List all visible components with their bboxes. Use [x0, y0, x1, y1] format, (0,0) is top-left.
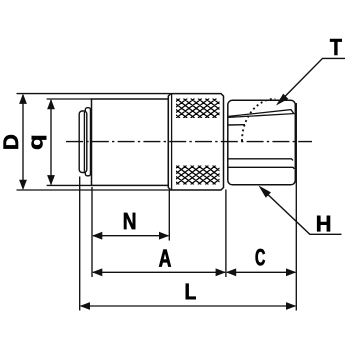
leader T arrowhead [276, 94, 288, 106]
plug tip outer ring [85, 108, 90, 176]
dimension L line [81, 305, 296, 307]
dimension d arrows [47, 99, 55, 109]
hex upper short flat line [228, 124, 245, 126]
body barrel [92, 99, 169, 185]
label D [4, 135, 18, 149]
leader H [261, 188, 342, 234]
label N [124, 213, 135, 229]
extension line right L/C [295, 103, 297, 311]
plug tip front ring [79, 111, 87, 173]
label L [186, 284, 196, 300]
thread dotted arc [242, 99, 275, 141]
dimension A line [93, 271, 225, 273]
hex lower flat line 2 [228, 167, 294, 169]
d bottom extension line [47, 184, 92, 186]
dimension N arrows [92, 232, 102, 240]
dimension N line [93, 235, 168, 237]
extension line A/C [225, 190, 227, 278]
dimension C line [227, 271, 295, 273]
extension line A/N left [91, 187, 93, 277]
label H [317, 216, 330, 232]
sleeve left face line [171, 94, 173, 190]
label T [330, 39, 342, 55]
dimension D line [22, 95, 24, 189]
label d [32, 136, 47, 149]
plug tip inner line [83, 112, 85, 172]
knurl band top [140, 99, 246, 119]
dimension d line [50, 100, 52, 184]
knurled sleeve [168, 94, 223, 190]
dimension L arrows [80, 302, 90, 310]
leader T [279, 58, 346, 103]
leader H arrowhead [259, 186, 272, 198]
extension line N right [168, 191, 170, 241]
centerline [66, 141, 312, 143]
hex upper wedge line [228, 110, 293, 118]
hex nut outline [228, 100, 295, 185]
extension line L left [79, 177, 81, 311]
D bottom extension line [17, 189, 171, 191]
dimension D arrows [19, 94, 27, 104]
d top extension line [47, 98, 92, 100]
dimension A arrows [92, 268, 102, 276]
hex lower flat line 1 [228, 159, 293, 161]
label C [256, 249, 265, 266]
label A [159, 250, 171, 267]
knurl band bottom [140, 166, 246, 185]
D top extension line [17, 93, 171, 95]
dimension C arrows [226, 268, 236, 276]
